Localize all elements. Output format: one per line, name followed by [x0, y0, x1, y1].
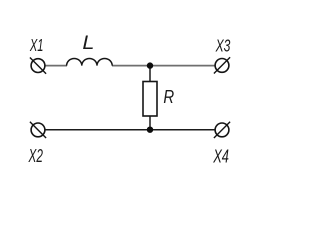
wire node A to resistor top — [149, 66, 151, 82]
svg-text:X2: X2 — [28, 146, 43, 166]
svg-text:R: R — [163, 86, 174, 107]
svg-text:L: L — [82, 33, 94, 54]
node A junction dot — [147, 62, 153, 68]
wire node A to X3 — [150, 65, 215, 67]
resistor R — [143, 82, 157, 117]
inductor L — [67, 59, 113, 66]
terminal X2 — [30, 122, 46, 138]
svg-text:X1: X1 — [29, 35, 43, 55]
wire resistor bottom to node B — [149, 116, 151, 130]
wire top-left stub X1 to L — [45, 65, 67, 67]
wire L to node A — [112, 65, 150, 67]
svg-text:X4: X4 — [212, 146, 229, 166]
terminal X3 — [214, 57, 230, 73]
node B junction dot — [147, 127, 153, 133]
svg-text:X3: X3 — [215, 35, 231, 55]
terminal X4 — [214, 122, 230, 138]
wire bottom X2 to X4 — [45, 129, 216, 131]
terminal X1 — [30, 58, 46, 74]
